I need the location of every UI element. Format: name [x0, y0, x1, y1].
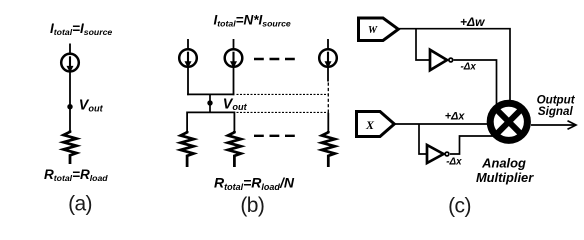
node Vout dot — [67, 104, 72, 109]
label Itotal=Isource — [50, 21, 112, 37]
wire branch W to inverter U1 — [416, 29, 430, 60]
input flag X — [357, 112, 395, 137]
wire top stub (a) — [69, 44, 71, 55]
resistor R2 — [181, 131, 194, 167]
bottom bus dotted — [237, 111, 329, 113]
output wire with arrow — [531, 121, 576, 130]
wire bus to R2 — [186, 112, 188, 132]
wire I2 to bus — [187, 67, 189, 95]
wire top stub IN — [327, 39, 329, 50]
inverter U2 — [427, 145, 449, 163]
resistor RN — [322, 131, 335, 167]
wire node vertical — [209, 94, 211, 112]
current source I3 — [225, 49, 243, 68]
dashed wire IN to bus — [327, 83, 329, 114]
label Rtotal=Rload/N — [214, 175, 295, 192]
inverter U1 — [430, 50, 453, 70]
wire U2 out to multiplier lower-left — [450, 136, 500, 154]
wire W flag to multiplier top — [398, 29, 510, 115]
wire IN below — [327, 67, 329, 82]
continuation dashes sources — [254, 58, 295, 60]
resistor R3 — [228, 131, 241, 167]
label Vout (b) — [223, 96, 248, 112]
wire branch X to inverter U2 — [419, 124, 427, 154]
label Rtotal=Rload — [44, 167, 108, 183]
wire bus to R3 — [233, 112, 235, 132]
svg-text:-Δx: -Δx — [461, 62, 477, 73]
svg-text:(a): (a) — [68, 193, 92, 216]
svg-text:-Δx: -Δx — [446, 157, 462, 168]
svg-text:Analog: Analog — [481, 156, 526, 171]
label Analog Multiplier — [476, 156, 534, 186]
label Itotal=N*Isource — [214, 12, 291, 28]
svg-text:W: W — [368, 25, 378, 36]
svg-text:(c): (c) — [448, 195, 471, 218]
top bus dotted — [237, 93, 329, 95]
current source I1 — [61, 54, 79, 73]
svg-text:Multiplier: Multiplier — [476, 170, 534, 185]
svg-text:(b): (b) — [240, 194, 264, 217]
wire X flag to multiplier left — [394, 123, 500, 125]
current source IN — [319, 49, 337, 68]
node Vout dot (b) — [207, 100, 212, 105]
wire I1 to resistor — [69, 71, 71, 130]
svg-text:+Δx: +Δx — [445, 111, 466, 123]
wire I3 to bus — [233, 67, 235, 95]
svg-text:Signal: Signal — [538, 105, 574, 118]
wire top stub I2 — [187, 39, 189, 50]
current source I2 — [179, 49, 197, 68]
svg-text:X: X — [365, 118, 375, 132]
multiplier U3 — [490, 103, 527, 140]
label Output Signal — [537, 93, 576, 117]
bottom bus solid — [187, 111, 234, 113]
wire bus to RN — [327, 113, 329, 131]
resistor Rload (a) — [64, 131, 77, 165]
input flag W — [359, 18, 399, 41]
wire U1 out to multiplier top — [454, 60, 497, 115]
continuation dashes resistors — [254, 135, 295, 137]
wire top stub I3 — [233, 39, 235, 50]
svg-text:+Δw: +Δw — [460, 15, 485, 29]
top bus solid — [187, 93, 234, 95]
label Vout — [79, 98, 104, 114]
